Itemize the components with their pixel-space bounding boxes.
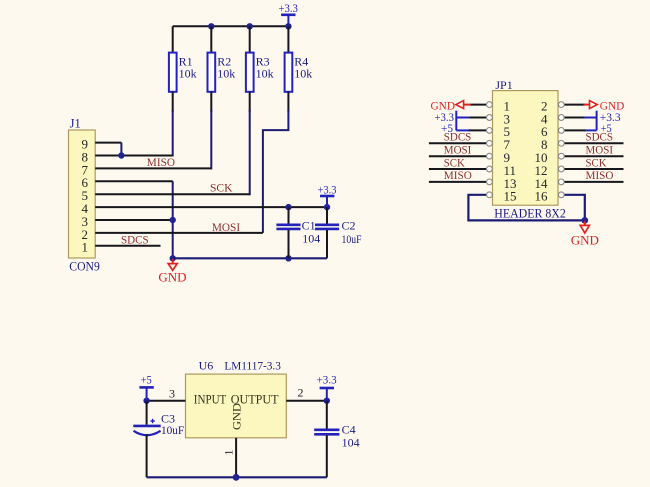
JP1 pin circles left (1,3,5,7,9,11,13,15) bbox=[487, 102, 493, 198]
JP1 pin 1 wire (left GND) bbox=[470, 104, 486, 106]
svg-text:SCK: SCK bbox=[210, 181, 233, 195]
wire U6 input to +5/C3 bbox=[147, 400, 186, 402]
capacitor C4 (104) bbox=[314, 401, 359, 478]
svg-text:SCK: SCK bbox=[444, 155, 465, 169]
JP1 pin circles right (2,4,6,8,10,12,14,16) bbox=[558, 102, 564, 198]
junction dot C1 top bbox=[285, 204, 291, 210]
junction dot pin3/GND vertical bbox=[170, 217, 176, 223]
svg-text:SCK: SCK bbox=[586, 155, 607, 169]
svg-text:10k: 10k bbox=[294, 66, 312, 80]
J1 pin 1 stub wire (SDCS) bbox=[95, 245, 160, 247]
svg-text:SDCS: SDCS bbox=[121, 233, 149, 247]
resistor R4 bbox=[285, 26, 313, 112]
U6 GND pin wire down bbox=[235, 438, 237, 478]
svg-text:JP1: JP1 bbox=[495, 78, 512, 92]
capacitor C2 bbox=[315, 207, 362, 258]
JP1 pin 6 wire (right +5) bbox=[564, 129, 585, 131]
J1 pin 5 wire to R3 (SCK) bbox=[95, 193, 250, 195]
capacitor C1 bbox=[276, 207, 320, 258]
+3.3 power symbol (at C2) bbox=[318, 183, 337, 208]
svg-text:3: 3 bbox=[169, 387, 175, 401]
wire +3.3/+5 bracket left bbox=[456, 111, 470, 131]
JP1 pin 9 wire (left MOSI) bbox=[429, 155, 487, 157]
svg-text:2: 2 bbox=[298, 386, 304, 400]
junction dot +3.3/C4 bbox=[324, 398, 330, 404]
svg-text:10k: 10k bbox=[217, 66, 235, 80]
JP1 pin 5 wire (left +5) bbox=[469, 129, 487, 131]
junction dot pin15/pin16 GND bbox=[581, 217, 588, 224]
ground symbol GND (J1) bbox=[158, 259, 186, 285]
connector J1 (CON9) body bbox=[69, 117, 100, 274]
regulator U6 (LM1117-3.3) body bbox=[186, 359, 287, 438]
svg-text:U6: U6 bbox=[199, 359, 214, 373]
svg-text:CON9: CON9 bbox=[69, 258, 100, 273]
ground symbol GND (JP1) bbox=[571, 221, 599, 248]
svg-text:+5: +5 bbox=[141, 373, 152, 387]
JP1 pin 13 wire (left MISO) bbox=[429, 181, 487, 183]
J1 pin 2 wire to R4 (MOSI) bbox=[95, 232, 263, 234]
svg-text:GND: GND bbox=[230, 403, 244, 430]
junction dot bus/R3 bbox=[247, 23, 253, 29]
svg-text:+3.3: +3.3 bbox=[278, 1, 298, 15]
wire R2 lower pin to J1 pin7 row bbox=[210, 110, 212, 169]
svg-text:LM1117-3.3: LM1117-3.3 bbox=[224, 359, 281, 373]
resistor R2 bbox=[208, 26, 236, 112]
svg-text:10uF: 10uF bbox=[161, 423, 184, 437]
capacitor C3 (electrolytic 10uF) bbox=[133, 401, 184, 478]
svg-text:GND: GND bbox=[571, 233, 599, 248]
J1 pin 7 wire to R2 (MISO) bbox=[95, 167, 211, 169]
svg-text:10uF: 10uF bbox=[342, 232, 362, 246]
port arrow GND left bbox=[431, 98, 471, 112]
JP1 pin 16 wire down to GND bbox=[564, 195, 585, 221]
wire R1 lower pin to MISO row bbox=[172, 110, 174, 157]
wire GND vertical (J1) bbox=[172, 181, 174, 258]
JP1 pin 3 wire (left +3.3) bbox=[469, 117, 487, 119]
JP1 pin 10 wire (right MOSI) bbox=[564, 155, 623, 157]
JP1 pin 12 wire (right SCK) bbox=[564, 168, 623, 170]
JP1 pin 7 wire (left SDCS) bbox=[429, 142, 487, 144]
svg-text:15: 15 bbox=[504, 189, 517, 204]
junction dot C1 bottom bbox=[285, 255, 291, 261]
svg-text:C1: C1 bbox=[302, 219, 316, 233]
svg-text:SDCS: SDCS bbox=[444, 130, 472, 144]
wire R3 lower pin to SCK row bbox=[249, 110, 251, 195]
svg-text:C2: C2 bbox=[342, 219, 356, 233]
svg-text:INPUT: INPUT bbox=[194, 392, 227, 406]
svg-text:104: 104 bbox=[302, 232, 320, 246]
svg-text:MOSI: MOSI bbox=[212, 220, 240, 234]
J1 pin 6 wire to GND vertical bbox=[95, 180, 173, 182]
svg-text:16: 16 bbox=[535, 189, 549, 204]
junction dot +5/C3 bbox=[143, 398, 149, 404]
junction dot GND pin/bottom rail bbox=[233, 474, 240, 481]
svg-text:+3.3: +3.3 bbox=[317, 373, 337, 387]
svg-text:1: 1 bbox=[222, 450, 236, 456]
junction dot pin8/pin9 bbox=[118, 152, 124, 158]
J1 pin 9 stub wire bbox=[95, 142, 121, 144]
J1 pin 3 wire to GND vertical bbox=[95, 219, 173, 221]
svg-text:C4: C4 bbox=[342, 423, 356, 437]
J1 pin 8 wire to R1 (MISO net upper) bbox=[95, 155, 173, 157]
svg-text:104: 104 bbox=[342, 436, 360, 450]
resistor R3 bbox=[246, 26, 274, 112]
svg-text:GND: GND bbox=[158, 270, 186, 285]
+3.3 power symbol (top, above R4) bbox=[278, 1, 298, 26]
port arrow GND right bbox=[584, 98, 625, 112]
wire +3.3/+5 bracket right bbox=[584, 111, 596, 131]
wire U6 output to +3.3/C4 bbox=[286, 400, 327, 402]
JP1 pin 11 wire (left SCK) bbox=[429, 168, 487, 170]
wire regulator bottom rail bbox=[147, 476, 327, 478]
JP1 pin 2 wire (right GND) bbox=[564, 104, 584, 106]
junction dot GND rail left bbox=[170, 255, 176, 261]
svg-text:MISO: MISO bbox=[147, 155, 176, 169]
svg-text:SDCS: SDCS bbox=[586, 130, 614, 144]
svg-text:+3.3: +3.3 bbox=[318, 183, 337, 197]
wire: pull-up top bus bbox=[173, 25, 289, 27]
resistor R1 bbox=[169, 26, 197, 112]
junction dot bus/+3.3 bbox=[285, 23, 291, 29]
svg-text:MISO: MISO bbox=[444, 168, 472, 182]
svg-text:10k: 10k bbox=[256, 66, 274, 80]
wire GND bottom rail (J1/C1/C2) bbox=[173, 257, 327, 259]
JP1 pin 15 wire loop to GND bbox=[468, 195, 584, 221]
JP1 pin 8 wire (right SDCS) bbox=[564, 142, 623, 144]
wire pin9 corner down to pin8 row bbox=[120, 143, 122, 157]
svg-text:J1: J1 bbox=[70, 117, 81, 131]
svg-text:HEADER 8X2: HEADER 8X2 bbox=[494, 206, 566, 221]
svg-text:MISO: MISO bbox=[586, 168, 614, 182]
+3.3 power symbol (at U6 output) bbox=[317, 373, 337, 401]
junction dot C2 top / +3.3 stub bbox=[324, 204, 330, 210]
J1 pin 4 wire to C1/C2/+3.3 bbox=[95, 206, 327, 208]
JP1 pin 14 wire (right MISO) bbox=[564, 181, 623, 183]
svg-text:1: 1 bbox=[82, 240, 89, 255]
svg-text:10k: 10k bbox=[179, 66, 197, 80]
wire R4 lower pin jog to MOSI row (down, left, down) bbox=[263, 110, 289, 233]
+5 power symbol bbox=[139, 373, 153, 401]
junction dot bus/R2 bbox=[208, 23, 214, 29]
JP1 pin 4 wire (right +3.3) bbox=[564, 117, 585, 119]
connector JP1 (HEADER 8X2) body bbox=[493, 78, 566, 221]
